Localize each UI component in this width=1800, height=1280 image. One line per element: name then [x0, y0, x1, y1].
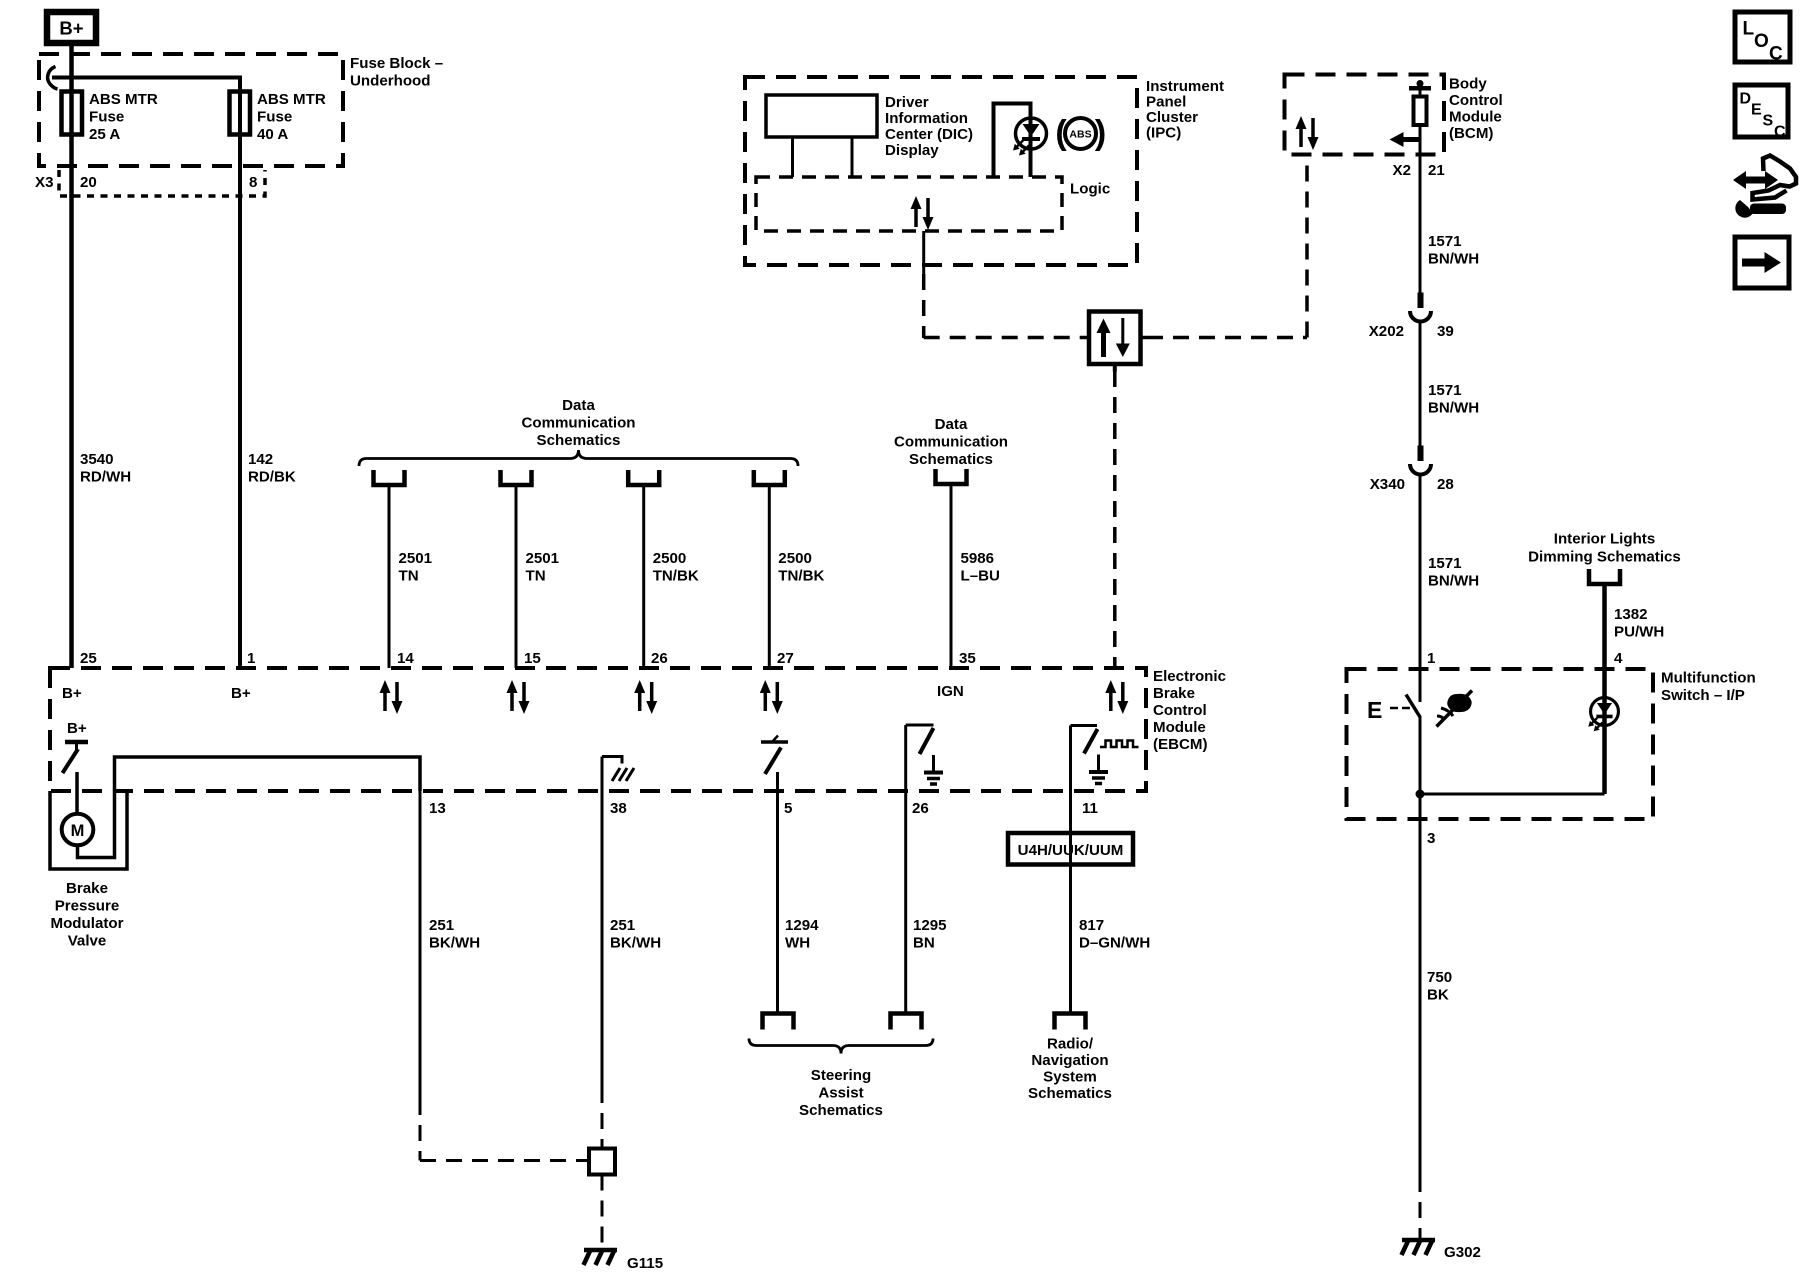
- wire 750 BK to ground G302: [1420, 969, 1452, 1239]
- svg-text:Communication: Communication: [521, 415, 635, 432]
- svg-text:Schematics: Schematics: [909, 451, 993, 468]
- svg-text:C: C: [1774, 124, 1786, 141]
- svg-text:Schematics: Schematics: [537, 432, 621, 449]
- svg-text:3: 3: [1427, 830, 1435, 847]
- svg-text:2500: 2500: [778, 550, 812, 567]
- wire 1295 BN from pin 26: [906, 791, 947, 1013]
- fuse ABS MTR 40A: [230, 91, 326, 143]
- ABS indicator LED: [1013, 118, 1047, 156]
- svg-text:BN/WH: BN/WH: [1428, 573, 1479, 590]
- svg-text:RD/BK: RD/BK: [248, 469, 296, 486]
- EBCM internal case ground at pin 38: [602, 755, 634, 781]
- svg-text:Body: Body: [1449, 76, 1487, 93]
- wire 1294 WH from pin 5: [778, 772, 820, 1013]
- off-page connector for wire 2501 TN (pin 14): [374, 470, 405, 485]
- connector X3 of fuse block: [35, 170, 265, 196]
- pump motor supply B+ and relay contact in EBCM: [63, 720, 89, 814]
- svg-text:Fuse: Fuse: [257, 109, 292, 126]
- fuse block underhood box: [39, 54, 443, 166]
- svg-text:Module: Module: [1449, 109, 1502, 126]
- DESC reference box: [1735, 85, 1788, 141]
- svg-text:TN: TN: [526, 568, 546, 585]
- serial data arrows EBCM pin 14: [380, 680, 403, 714]
- serial data arrows EBCM pin 26: [634, 680, 657, 714]
- wire 1382 PU/WH to multifunction switch pin 4: [1605, 585, 1665, 670]
- wire 251 BK/WH from pin 38: [602, 757, 661, 1149]
- svg-text:25: 25: [80, 650, 97, 667]
- svg-text:Driver: Driver: [885, 94, 929, 111]
- svg-text:(BCM): (BCM): [1449, 125, 1493, 142]
- svg-text:251: 251: [610, 917, 635, 934]
- svg-text:TN/BK: TN/BK: [778, 568, 824, 585]
- svg-text:40 A: 40 A: [257, 126, 288, 143]
- svg-text:Center (DIC): Center (DIC): [885, 126, 973, 143]
- svg-text:26: 26: [651, 650, 668, 667]
- svg-text:X3: X3: [35, 174, 53, 191]
- svg-text:E: E: [1367, 697, 1382, 723]
- svg-text:ABS MTR: ABS MTR: [89, 91, 158, 108]
- off-page connector for wire 2500 TN/BK (pin 26): [628, 470, 659, 485]
- svg-text:C: C: [1769, 44, 1783, 65]
- off-page connector radio navigation wire 817: [1055, 1014, 1086, 1030]
- junction node in multifunction switch: [1416, 790, 1436, 848]
- fuse ABS MTR 25A: [62, 91, 158, 143]
- svg-text:Logic: Logic: [1070, 181, 1110, 198]
- wire fuse block feed to ABS MTR fuse 40A down to EBCM pin 1: [52, 78, 240, 669]
- svg-text:D: D: [1740, 91, 1752, 108]
- wire pump motor ground loop: [50, 791, 127, 869]
- radio navigation system schematics label: [1028, 1036, 1112, 1103]
- svg-text:750: 750: [1427, 969, 1452, 986]
- svg-text:Radio/: Radio/: [1047, 1036, 1094, 1053]
- wire 1571 BN/WH X202 to X340: [1420, 322, 1479, 446]
- brake pressure modulator valve pump motor: [51, 814, 124, 950]
- svg-text:D–GN/WH: D–GN/WH: [1079, 935, 1150, 952]
- svg-text:Communication: Communication: [894, 434, 1008, 451]
- serial data arrows in BCM: [1296, 116, 1319, 150]
- B+ battery feed symbol: [47, 12, 96, 43]
- clip symbol on fuse block feed: [48, 67, 58, 90]
- TCS off switch contact E: [1367, 669, 1420, 723]
- svg-text:L: L: [1743, 19, 1755, 40]
- svg-text:BK: BK: [1427, 987, 1449, 1004]
- ABS telltale symbol: [1055, 114, 1106, 152]
- electronic brake control module EBCM box: [50, 668, 1226, 791]
- svg-text:5: 5: [784, 800, 792, 817]
- serial data arrows in logic: [911, 196, 934, 230]
- svg-text:Module: Module: [1153, 719, 1206, 736]
- svg-text:E: E: [1751, 102, 1762, 119]
- svg-text:Information: Information: [885, 110, 968, 127]
- svg-text:ABS: ABS: [1069, 129, 1091, 141]
- svg-text:Navigation: Navigation: [1031, 1052, 1108, 1069]
- svg-text:M: M: [71, 822, 85, 840]
- svg-text:Switch – I/P: Switch – I/P: [1661, 687, 1745, 704]
- svg-text:21: 21: [1428, 162, 1445, 179]
- svg-text:BK/WH: BK/WH: [429, 935, 480, 952]
- DIC display leads to logic: [793, 137, 853, 177]
- wire B+ feed to ABS MTR fuse 25A down to EBCM pin 25: [69, 43, 74, 668]
- wire 2501 TN to EBCM pin 14: [389, 485, 432, 668]
- svg-text:1571: 1571: [1428, 233, 1462, 250]
- wire pump motor return to EBCM pin 13: [78, 757, 421, 858]
- off-page connector for wire 2500 TN/BK (pin 27): [754, 470, 785, 485]
- svg-text:G115: G115: [627, 1255, 663, 1272]
- svg-text:1295: 1295: [913, 917, 947, 934]
- svg-text:ABS MTR: ABS MTR: [257, 91, 326, 108]
- svg-text:Underhood: Underhood: [350, 73, 431, 90]
- driver information center DIC display: [766, 94, 973, 159]
- LOC reference box: [1735, 12, 1790, 65]
- inline connector X340 pin 28: [1370, 446, 1454, 494]
- wire 2501 TN to EBCM pin 15: [516, 485, 559, 668]
- svg-text:Interior Lights: Interior Lights: [1554, 531, 1655, 548]
- svg-text:U4H/UUK/UUM: U4H/UUK/UUM: [1018, 842, 1124, 859]
- svg-text:2500: 2500: [653, 550, 687, 567]
- svg-text:BN/WH: BN/WH: [1428, 400, 1479, 417]
- svg-text:Assist: Assist: [818, 1085, 863, 1102]
- svg-text:B+: B+: [59, 18, 83, 39]
- svg-text:Cluster: Cluster: [1146, 109, 1198, 126]
- svg-text:Control: Control: [1449, 92, 1503, 109]
- ground G115: [584, 1250, 664, 1272]
- wrench icon: [1735, 200, 1786, 218]
- EBCM top pin numbers: [80, 650, 976, 667]
- svg-text:): ): [1095, 114, 1106, 152]
- svg-text:TN: TN: [399, 568, 419, 585]
- wire multifunction switch internal to junction: [1419, 716, 1422, 1176]
- svg-text:Instrument: Instrument: [1146, 78, 1224, 95]
- svg-text:Multifunction: Multifunction: [1661, 670, 1756, 687]
- svg-text:Fuse Block –: Fuse Block –: [350, 55, 443, 72]
- serial data wire data link to EBCM: [1113, 371, 1117, 668]
- svg-text:X340: X340: [1370, 476, 1405, 493]
- svg-text:Schematics: Schematics: [799, 1102, 883, 1119]
- svg-text:1571: 1571: [1428, 382, 1462, 399]
- svg-text:X2: X2: [1393, 162, 1411, 179]
- svg-text:38: 38: [610, 800, 627, 817]
- svg-text:Fuse: Fuse: [89, 109, 124, 126]
- brace under steering assist wires: [749, 1039, 933, 1054]
- svg-text:BN: BN: [913, 935, 935, 952]
- wire 817 D-GN/WH from pin 11: [1071, 791, 1151, 1013]
- BCM connector X2 pin 21: [1393, 162, 1445, 179]
- instrument panel cluster IPC box: [745, 77, 1224, 265]
- serial data arrows EBCM pin 27: [760, 680, 783, 714]
- data link junction box: [1083, 312, 1147, 372]
- svg-text:27: 27: [777, 650, 794, 667]
- svg-text:B+: B+: [231, 685, 251, 702]
- wire 2500 TN/BK to EBCM pin 26: [644, 485, 699, 668]
- splice S-box on ground wires: [589, 1149, 615, 1250]
- EBCM internal switch at pin 5: [761, 736, 788, 775]
- forward reference arrow box: [1735, 237, 1789, 288]
- svg-text:RD/WH: RD/WH: [80, 469, 131, 486]
- svg-text:Display: Display: [885, 142, 939, 159]
- ground G302: [1402, 1240, 1481, 1261]
- svg-text:11: 11: [1082, 800, 1098, 817]
- svg-text:Brake: Brake: [1153, 685, 1195, 702]
- svg-text:X202: X202: [1369, 323, 1404, 340]
- EBCM internal B+ labels and IGN: [62, 683, 964, 702]
- off-page connector for wire 2501 TN (pin 15): [501, 470, 532, 485]
- serial data arrows EBCM pin 15: [507, 680, 530, 714]
- svg-text:Steering: Steering: [811, 1067, 871, 1084]
- svg-text:BK/WH: BK/WH: [610, 935, 661, 952]
- data communication schematics label (IGN feed): [894, 416, 1008, 468]
- traction control icon: [1437, 691, 1473, 727]
- svg-text:(EBCM): (EBCM): [1153, 736, 1208, 753]
- off-page connector for wire 5986 L-BU: [936, 469, 967, 484]
- serial data wire logic to data link: [924, 231, 1083, 338]
- serial data wire data link to BCM: [1147, 155, 1307, 338]
- svg-text:4: 4: [1614, 650, 1623, 667]
- svg-text:1: 1: [247, 650, 255, 667]
- svg-text:25 A: 25 A: [89, 126, 120, 143]
- svg-text:L–BU: L–BU: [961, 568, 1000, 585]
- wire 251 BK/WH from pin 13: [420, 791, 588, 1161]
- inline connector X202 pin 39: [1369, 293, 1454, 341]
- interior lights dimming schematics label: [1528, 531, 1681, 566]
- svg-text:15: 15: [524, 650, 541, 667]
- svg-text:B+: B+: [67, 720, 87, 737]
- svg-text:B+: B+: [62, 685, 82, 702]
- svg-text:IGN: IGN: [937, 683, 964, 700]
- svg-text:817: 817: [1079, 917, 1104, 934]
- svg-text:2501: 2501: [526, 550, 560, 567]
- svg-text:(IPC): (IPC): [1146, 125, 1181, 142]
- svg-text:TN/BK: TN/BK: [653, 568, 699, 585]
- brace over data communication connectors: [359, 450, 798, 466]
- svg-text:39: 39: [1437, 323, 1454, 340]
- off-page connector steering assist wire 1295: [891, 1014, 922, 1030]
- serial data arrows EBCM pin 11 top: [1105, 680, 1128, 714]
- svg-text:251: 251: [429, 917, 454, 934]
- svg-text:1294: 1294: [785, 917, 819, 934]
- off-page connector steering assist wire 1294: [763, 1014, 794, 1030]
- svg-text:8: 8: [249, 174, 257, 191]
- svg-text:Pressure: Pressure: [55, 898, 120, 915]
- svg-text:PU/WH: PU/WH: [1614, 624, 1664, 641]
- svg-text:Data: Data: [562, 397, 595, 414]
- wire 2500 TN/BK to EBCM pin 27: [769, 485, 824, 668]
- svg-text:28: 28: [1437, 476, 1454, 493]
- wire 1571 BN/WH X340 to multifunction switch pin 1: [1420, 475, 1479, 669]
- svg-text:Electronic: Electronic: [1153, 668, 1226, 685]
- body control module BCM box: [1285, 75, 1503, 155]
- ABS indicator lamp branch wire: [994, 104, 1031, 178]
- svg-text:System: System: [1043, 1069, 1097, 1086]
- svg-text:Modulator: Modulator: [51, 915, 124, 932]
- wire 5986 L-BU to EBCM pin 35: [951, 484, 1000, 668]
- BCM internal circuit breaker: [1409, 80, 1431, 155]
- svg-text:26: 26: [912, 800, 929, 817]
- svg-text:Brake: Brake: [66, 880, 108, 897]
- svg-text:5986: 5986: [961, 550, 995, 567]
- svg-text:13: 13: [429, 800, 446, 817]
- svg-text:1571: 1571: [1428, 555, 1462, 572]
- EBCM internal switch to ground at pin 11: [1071, 726, 1139, 792]
- svg-text:S: S: [1763, 113, 1774, 130]
- svg-text:O: O: [1754, 31, 1769, 52]
- svg-text:142: 142: [248, 451, 273, 468]
- IPC logic box: [756, 177, 1110, 231]
- svg-text:1: 1: [1427, 650, 1435, 667]
- off-page connector interior lights dimming: [1589, 569, 1620, 584]
- EBCM internal switch to ground at pin 26: [906, 725, 943, 791]
- svg-text:Valve: Valve: [68, 933, 107, 950]
- connector views icon: [1733, 156, 1796, 200]
- multifunction switch box: [1347, 669, 1756, 819]
- svg-text:35: 35: [959, 650, 976, 667]
- svg-text:Panel: Panel: [1146, 94, 1186, 111]
- svg-text:BN/WH: BN/WH: [1428, 251, 1479, 268]
- svg-text:20: 20: [80, 174, 97, 191]
- svg-text:1382: 1382: [1614, 606, 1648, 623]
- svg-text:Dimming Schematics: Dimming Schematics: [1528, 549, 1681, 566]
- svg-text:Control: Control: [1153, 702, 1207, 719]
- interior lamp LED in multifunction switch: [1588, 669, 1618, 794]
- svg-text:WH: WH: [785, 935, 810, 952]
- svg-text:14: 14: [397, 650, 414, 667]
- svg-text:G302: G302: [1444, 1244, 1481, 1261]
- data communication schematics label (left): [521, 397, 635, 449]
- EBCM bottom pin numbers: [429, 800, 1098, 817]
- svg-text:(: (: [1055, 114, 1067, 152]
- wire 1571 BN/WH BCM to X202: [1420, 155, 1479, 294]
- BCM internal left arrow: [1390, 132, 1422, 147]
- svg-text:2501: 2501: [399, 550, 433, 567]
- svg-text:3540: 3540: [80, 451, 114, 468]
- svg-text:Data: Data: [935, 416, 968, 433]
- steering assist schematics label: [799, 1067, 883, 1119]
- svg-text:Schematics: Schematics: [1028, 1085, 1112, 1102]
- wire label 142 RD/BK: [248, 451, 296, 486]
- RPO code box U4H/UUK/UUM: [1008, 833, 1133, 865]
- wire LED return to junction: [1420, 793, 1605, 796]
- wire label 3540 RD/WH: [80, 451, 131, 486]
